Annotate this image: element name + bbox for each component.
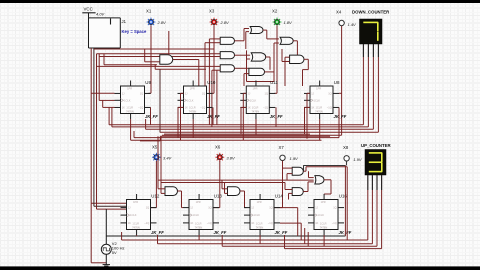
wire X4 stem: [341, 26, 343, 135]
wire bus L5: [162, 134, 342, 136]
wire bus L7: [160, 135, 330, 137]
svg-text:~1Q: ~1Q: [200, 105, 205, 109]
wire display leads down: [362, 44, 364, 57]
svg-text:DOWN_COUNTER: DOWN_COUNTER: [352, 10, 390, 15]
svg-text:X5: X5: [152, 145, 158, 150]
svg-text:1K: 1K: [122, 105, 125, 109]
ground: [105, 254, 107, 264]
wire GE output: [324, 179, 331, 181]
svg-text:1CLK: 1CLK: [254, 213, 261, 217]
svg-text:1K: 1K: [315, 221, 318, 225]
wire G7 input2: [274, 42, 279, 44]
svg-text:1Q: 1Q: [140, 91, 143, 95]
wire G5 output: [266, 56, 270, 58]
svg-text:1K: 1K: [251, 221, 254, 225]
wire bottom bus y180: [158, 179, 314, 181]
flip-flop U9: [121, 86, 145, 114]
wire bottom bus B4: [222, 245, 377, 247]
wire G9 input2: [145, 61, 160, 63]
wire GA inputs: [158, 188, 165, 190]
svg-text:1CLK: 1CLK: [314, 98, 321, 102]
svg-text:1.8V: 1.8V: [284, 20, 293, 25]
svg-text:U8: U8: [334, 80, 340, 85]
wire G8 inputs: [285, 56, 290, 58]
wire GD output: [303, 191, 308, 193]
wire GE input1: [309, 177, 314, 179]
svg-text:7476N: 7476N: [256, 225, 264, 229]
svg-text:2.8V: 2.8V: [157, 20, 167, 25]
probe X5: [152, 156, 161, 158]
seven-segment display DOWN_COUNTER: [360, 19, 383, 44]
wire G3 output: [235, 67, 249, 69]
AND gate GB: [228, 187, 241, 196]
wire X3 stem: [213, 26, 215, 94]
OR gate G5: [251, 53, 265, 61]
wire G2 output: [235, 54, 251, 56]
flip-flop U16: [314, 200, 338, 230]
svg-text:1PR: 1PR: [257, 200, 262, 204]
wire FF CLR drops: [130, 119, 132, 140]
flip-flop U11: [246, 86, 269, 114]
svg-text:J1: J1: [122, 19, 127, 24]
svg-text:1PR: 1PR: [321, 200, 326, 204]
svg-text:1CLR: 1CLR: [252, 106, 259, 110]
svg-text:1CLK: 1CLK: [187, 98, 194, 102]
svg-text:1K: 1K: [128, 221, 131, 225]
seven-segment display UP_COUNTER: [365, 150, 386, 176]
svg-text:~1Q: ~1Q: [332, 221, 337, 225]
flip-flop U8: [310, 86, 333, 114]
OR gate GE: [315, 176, 324, 184]
wire G9 output: [173, 59, 199, 61]
wire rail D: [98, 54, 100, 101]
svg-text:1.9V: 1.9V: [353, 157, 362, 162]
AND gate GA: [165, 187, 178, 196]
AND gate G1: [220, 37, 234, 44]
flip-flop U12: [127, 200, 151, 230]
svg-text:7476N: 7476N: [189, 109, 197, 113]
svg-text:1PR: 1PR: [133, 200, 138, 204]
svg-text:JK_FF: JK_FF: [334, 114, 347, 119]
wire GB output: [240, 190, 245, 192]
wire black h y165.4: [304, 164, 346, 166]
wire FF3 Qbar route: [280, 222, 301, 224]
probe X6: [215, 156, 224, 158]
svg-text:JK_FF: JK_FF: [145, 114, 158, 119]
wire bus y49: [94, 48, 214, 50]
probe X2: [273, 21, 282, 23]
svg-text:7476N: 7476N: [320, 225, 328, 229]
svg-text:U11: U11: [270, 80, 278, 85]
wire y66.5 branch: [97, 65, 217, 67]
wire G1 inputs: [209, 38, 220, 40]
svg-text:1K: 1K: [248, 105, 251, 109]
svg-text:3.8V: 3.8V: [226, 156, 235, 161]
wire bus L6: [134, 137, 339, 139]
wire FF JK risers: [181, 92, 184, 94]
svg-text:1Q: 1Q: [333, 206, 336, 210]
wire GC output: [303, 170, 306, 172]
svg-text:3.4V: 3.4V: [163, 156, 172, 161]
svg-text:1PR: 1PR: [316, 87, 321, 91]
wire rail B: [93, 48, 95, 206]
wire UP display leads: [367, 175, 369, 190]
svg-text:1CLK: 1CLK: [124, 98, 131, 102]
AND gate G6: [249, 68, 265, 75]
svg-text:JK_FF: JK_FF: [207, 114, 220, 119]
wire bus L2: [112, 126, 369, 128]
flip-flop U10: [184, 86, 207, 114]
wire X8 stem: [346, 161, 348, 165]
svg-text:1Q: 1Q: [146, 206, 149, 210]
svg-text:UP_COUNTER: UP_COUNTER: [361, 143, 392, 148]
wire X1 gate tap: [151, 56, 160, 58]
wire GA output: [178, 190, 182, 192]
svg-text:1CLR: 1CLR: [132, 222, 139, 226]
svg-text:1K: 1K: [190, 221, 193, 225]
wire GB inputs: [222, 188, 228, 190]
AND gate G9: [160, 55, 173, 64]
wire switch bottom: [89, 47, 121, 49]
wire G1 output: [235, 40, 245, 42]
wire G5 input2: [247, 58, 251, 60]
svg-text:1PR: 1PR: [196, 200, 201, 204]
wire y64.7 branch: [103, 54, 105, 65]
wire bottom bus B3: [158, 243, 373, 245]
AND gate G8: [290, 55, 304, 63]
wire bus L1: [109, 124, 363, 126]
wire X7 stem: [282, 161, 284, 208]
switch J1: [89, 18, 121, 48]
wire FF1 J feed: [91, 92, 114, 94]
wire G3 inputs: [217, 65, 221, 67]
wire bottom bus B2: [122, 239, 368, 241]
svg-text:JK_FF: JK_FF: [151, 230, 164, 235]
wire FF3 Q route: [280, 207, 298, 209]
svg-text:X6: X6: [215, 145, 221, 150]
probe X8: [344, 156, 349, 161]
svg-text:1CLK: 1CLK: [193, 213, 200, 217]
wire G4 output: [263, 29, 267, 31]
AND gate GC: [292, 167, 303, 175]
wire bottom bus B1: [106, 235, 345, 237]
wire rail A: [90, 48, 92, 263]
svg-text:7476N: 7476N: [132, 225, 140, 229]
probe X4: [339, 20, 344, 25]
letterbox top bar: [0, 0, 480, 3]
wire G6 input2: [244, 73, 249, 75]
probe X7: [280, 155, 285, 160]
svg-text:7476N: 7476N: [195, 225, 203, 229]
svg-text:1PR: 1PR: [252, 87, 257, 91]
wire bus L8: [131, 139, 322, 141]
svg-text:1CLR: 1CLR: [315, 106, 322, 110]
svg-text:X8: X8: [343, 145, 349, 150]
svg-text:2.8V: 2.8V: [220, 20, 230, 25]
svg-text:X7: X7: [279, 145, 285, 150]
svg-text:VCC: VCC: [84, 7, 93, 12]
OR gate G7: [280, 37, 293, 44]
svg-text:7476N: 7476N: [315, 109, 323, 113]
svg-text:X1: X1: [146, 8, 152, 13]
svg-text:X4: X4: [336, 9, 342, 14]
svg-text:~1Q: ~1Q: [268, 221, 273, 225]
wire bus L4: [160, 131, 379, 133]
svg-text:1CLR: 1CLR: [126, 106, 133, 110]
svg-text:JK_FF: JK_FF: [275, 230, 288, 235]
svg-text:~1Q: ~1Q: [138, 105, 143, 109]
wire X5 stem: [155, 161, 157, 208]
wire FF CLR bottom drops: [136, 235, 138, 236]
svg-text:1CLK: 1CLK: [318, 213, 325, 217]
svg-text:4.0V: 4.0V: [96, 11, 105, 16]
flip-flop U13: [189, 200, 213, 230]
svg-text:U9: U9: [145, 80, 151, 85]
wire G8 output: [304, 58, 308, 60]
svg-text:U13: U13: [214, 194, 223, 199]
wire X6 stem: [219, 161, 221, 208]
wire y69.3 branch: [154, 64, 156, 69]
svg-text:1Q: 1Q: [208, 206, 211, 210]
svg-text:U16: U16: [339, 194, 348, 199]
flip-flop U14: [250, 200, 274, 230]
svg-text:1CLR: 1CLR: [320, 222, 327, 226]
svg-text:U10: U10: [207, 80, 216, 85]
wire X1 stem: [150, 26, 152, 94]
wire G2 input2: [99, 56, 220, 58]
svg-text:1K: 1K: [311, 105, 314, 109]
svg-text:~1Q: ~1Q: [263, 105, 268, 109]
wire G7 output: [293, 40, 297, 42]
svg-text:Key = Space: Key = Space: [122, 29, 147, 34]
wire upturn x304.7: [304, 228, 306, 244]
clock source V2: [105, 209, 107, 244]
AND gate G2: [220, 52, 234, 59]
svg-text:5V: 5V: [112, 250, 117, 255]
probe X3: [210, 21, 219, 23]
wire rail C: [96, 54, 98, 209]
svg-text:~1Q: ~1Q: [327, 105, 332, 109]
wire GD inputs: [285, 189, 292, 191]
svg-text:1CLK: 1CLK: [250, 98, 257, 102]
VCC power symbol: [82, 12, 95, 14]
svg-text:U14: U14: [275, 194, 284, 199]
wire FF Q drops: [212, 107, 214, 124]
wire G4 input2: [246, 31, 249, 33]
wire GC inputs: [283, 167, 293, 169]
svg-text:X2: X2: [272, 8, 278, 13]
wire upturn x308.2: [307, 232, 309, 246]
svg-text:1CLR: 1CLR: [256, 222, 263, 226]
svg-text:JK_FF: JK_FF: [214, 230, 227, 235]
OR gate G4: [250, 27, 263, 34]
svg-text:1.4V: 1.4V: [348, 22, 357, 27]
letterbox bottom bar: [0, 266, 480, 270]
svg-text:1PR: 1PR: [190, 87, 195, 91]
svg-text:1CLR: 1CLR: [189, 106, 196, 110]
probe X1: [147, 21, 156, 23]
svg-text:1Q: 1Q: [269, 206, 272, 210]
svg-text:X3: X3: [209, 8, 215, 13]
svg-text:~1Q: ~1Q: [144, 221, 149, 225]
svg-text:1Q: 1Q: [265, 91, 268, 95]
AND gate G3: [220, 65, 234, 72]
wire bus y53.8: [97, 53, 221, 55]
svg-text:U12: U12: [151, 194, 160, 199]
svg-text:~1Q: ~1Q: [207, 221, 212, 225]
svg-text:1Q: 1Q: [202, 91, 205, 95]
wire bus L3: [146, 128, 374, 130]
wire G6 output: [265, 71, 275, 73]
AND gate GD: [292, 188, 303, 196]
wire X2 stem: [276, 26, 278, 94]
svg-text:1CLR: 1CLR: [195, 222, 202, 226]
wire bottom bus y182.5: [161, 182, 285, 184]
svg-text:1PR: 1PR: [127, 87, 132, 91]
svg-text:7476N: 7476N: [126, 109, 134, 113]
wire bottom bus B5: [285, 248, 382, 250]
svg-text:1.9V: 1.9V: [290, 156, 299, 161]
svg-text:1K: 1K: [185, 105, 188, 109]
svg-text:1CLK: 1CLK: [130, 213, 137, 217]
svg-text:7476N: 7476N: [251, 109, 259, 113]
svg-text:1Q: 1Q: [328, 91, 331, 95]
